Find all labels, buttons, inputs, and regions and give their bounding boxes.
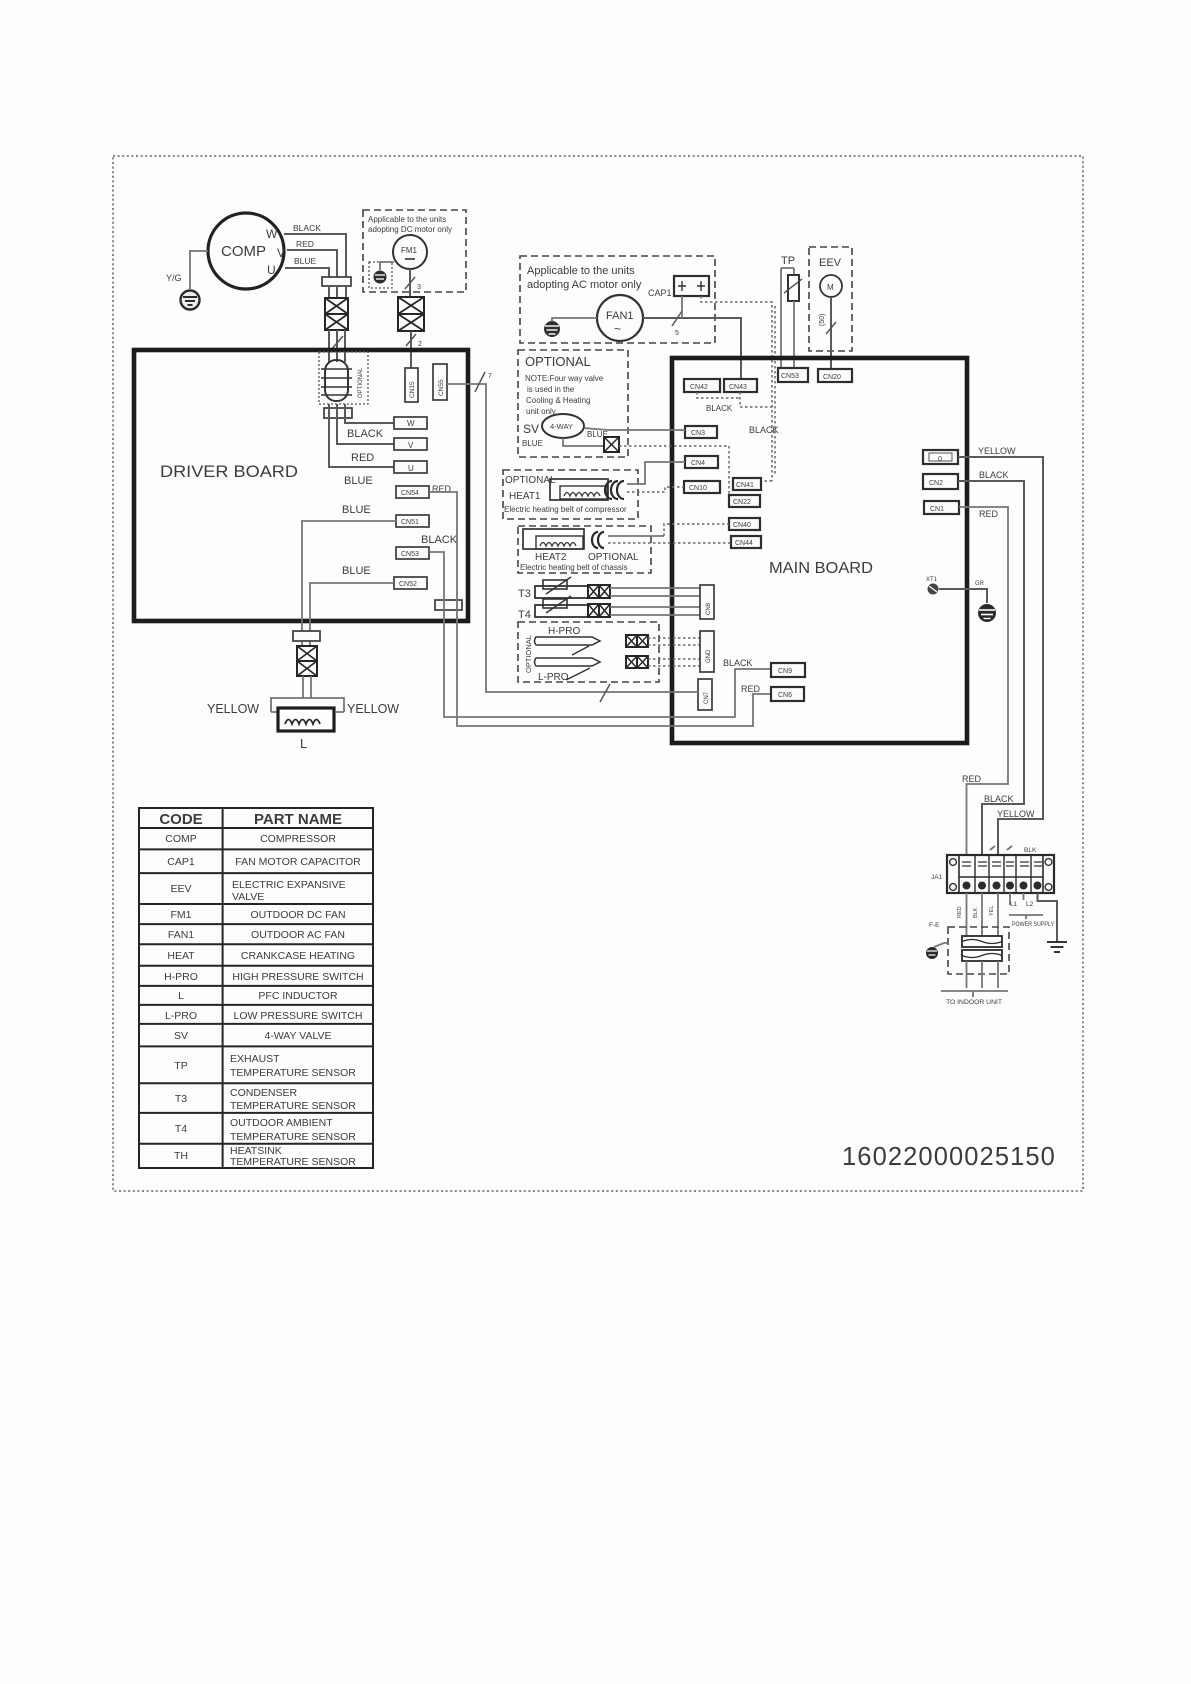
- svg-text:RED: RED: [979, 509, 999, 519]
- svg-text:CN41: CN41: [736, 482, 754, 489]
- connector CN10: [684, 481, 720, 493]
- svg-text:HEAT1: HEAT1: [509, 491, 541, 502]
- connector CN9: [771, 663, 805, 677]
- dotted joins CN42 CN43: [697, 392, 772, 407]
- svg-text:Cooling & Heating: Cooling & Heating: [526, 396, 590, 405]
- wire FM1 filter to CN15: [410, 331, 412, 369]
- dotted HEAT2 to CN44: [608, 542, 731, 543]
- svg-text:SV: SV: [523, 422, 539, 436]
- slash EEV: [826, 322, 836, 334]
- wires filter to indoor: [967, 961, 999, 988]
- svg-text:TP: TP: [174, 1060, 187, 1072]
- slash on CN7 wire: [600, 684, 610, 702]
- svg-text:2: 2: [418, 341, 422, 348]
- stubs L1 L2: [1010, 893, 1024, 905]
- svg-text:BLACK: BLACK: [293, 223, 321, 233]
- svg-text:CONDENSER: CONDENSER: [230, 1087, 298, 1099]
- slash 2: [406, 334, 416, 346]
- ferrite on red black pair: [435, 600, 462, 610]
- svg-text:Applicable to the units: Applicable to the units: [368, 215, 446, 224]
- connector CN52: [394, 577, 427, 589]
- svg-text:OPTIONAL: OPTIONAL: [588, 552, 639, 563]
- svg-text:OPTIONAL: OPTIONAL: [525, 354, 591, 369]
- connector CN7 vertical: [698, 679, 712, 710]
- svg-text:GND: GND: [706, 649, 712, 663]
- slash 5: [672, 311, 682, 326]
- slash 7: [475, 372, 485, 392]
- wire RED CN54 to CN6: [429, 492, 771, 726]
- wire red to V: [337, 404, 394, 444]
- connector CN42: [684, 379, 720, 392]
- connector CN43: [724, 379, 757, 392]
- filter block above inductor: [297, 646, 317, 676]
- wires T3 to board: [610, 588, 700, 596]
- svg-text:JA1: JA1: [931, 874, 943, 881]
- svg-text:BLACK: BLACK: [979, 470, 1009, 480]
- connector CN41: [733, 478, 761, 490]
- wire SV bottom: [563, 438, 604, 446]
- table part names column: [230, 833, 364, 1168]
- wire COMP U blue: [285, 268, 329, 277]
- ferrite below driver board: [293, 631, 320, 641]
- svg-text:4-WAY VALVE: 4-WAY VALVE: [264, 1030, 331, 1042]
- svg-text:BLUE: BLUE: [342, 565, 371, 577]
- sensor T3: [518, 577, 589, 600]
- filter windings: [962, 936, 1002, 961]
- power supply bracket: [1009, 915, 1043, 919]
- ground Y/G: [166, 273, 200, 310]
- terminal V: [394, 438, 427, 450]
- svg-text:V: V: [408, 441, 414, 450]
- svg-text:3: 3: [417, 284, 421, 291]
- svg-text:EEV: EEV: [170, 883, 191, 895]
- svg-text:TH: TH: [174, 1150, 188, 1162]
- svg-text:CN55: CN55: [438, 379, 445, 396]
- wires filter to transformer: [329, 330, 345, 362]
- connector CN1: [924, 501, 959, 514]
- wire HEAT1 to CN4: [627, 462, 685, 484]
- terminal U: [394, 461, 427, 473]
- capacitor CAP1: [648, 276, 709, 298]
- filter dashed box: [948, 927, 1009, 974]
- connector CN53 driver: [396, 547, 429, 559]
- connector HEAT1 plug: [605, 481, 624, 499]
- svg-text:COMPRESSOR: COMPRESSOR: [260, 833, 336, 845]
- svg-text:4-WAY: 4-WAY: [550, 422, 573, 431]
- switch L-PRO: [535, 658, 601, 680]
- svg-text:FAN1: FAN1: [168, 929, 194, 941]
- svg-text:CN10: CN10: [689, 485, 707, 492]
- filter block (hourglass) compressor: [325, 298, 348, 330]
- svg-text:CAP1: CAP1: [648, 288, 672, 298]
- wire black to W: [345, 404, 394, 423]
- wire YELLOW down right: [958, 457, 1043, 855]
- svg-text:Electric heating belt of chass: Electric heating belt of chassis: [520, 563, 628, 572]
- earth ground right: [1047, 942, 1067, 952]
- svg-text:BLUE: BLUE: [294, 256, 317, 266]
- ground FAN1: [544, 321, 560, 337]
- indoor bracket: [941, 991, 1008, 997]
- connector CN40: [729, 518, 760, 530]
- table codes column: [164, 833, 198, 1162]
- parts table: [139, 808, 373, 1168]
- svg-text:Y/G: Y/G: [166, 273, 182, 283]
- inductor feed bracket: [271, 698, 344, 712]
- svg-text:CN7: CN7: [704, 691, 710, 704]
- transformer capsule: [321, 360, 364, 401]
- connector D (yellow): [923, 450, 958, 464]
- svg-text:CN3: CN3: [691, 430, 705, 437]
- svg-text:L1: L1: [1010, 901, 1018, 908]
- svg-text:CN20: CN20: [823, 374, 841, 381]
- svg-text:T3: T3: [175, 1093, 187, 1105]
- svg-text:16022000025150: 16022000025150: [842, 1143, 1056, 1171]
- svg-text:L2: L2: [1026, 901, 1034, 908]
- svg-text:CN40: CN40: [733, 522, 751, 529]
- svg-text:COMP: COMP: [221, 243, 266, 260]
- svg-text:M: M: [827, 283, 834, 292]
- svg-text:unit only: unit only: [526, 407, 556, 416]
- svg-text:GR: GR: [975, 581, 985, 587]
- svg-text:EXHAUST: EXHAUST: [230, 1053, 280, 1065]
- page frame dashed border: [113, 156, 1083, 1191]
- svg-text:XT1: XT1: [926, 577, 938, 583]
- inductor L: [278, 708, 334, 731]
- dotted SV to CN22: [619, 446, 729, 495]
- svg-text:CODE: CODE: [159, 811, 202, 828]
- ground filter left: [926, 947, 938, 959]
- svg-text:U: U: [408, 464, 414, 473]
- svg-text:HEAT: HEAT: [167, 950, 195, 962]
- sensor TP: [781, 255, 802, 368]
- svg-text:BLK: BLK: [1024, 847, 1037, 854]
- svg-text:TEMPERATURE SENSOR: TEMPERATURE SENSOR: [230, 1100, 356, 1112]
- wire screw to ground: [939, 589, 987, 603]
- wire COMP V red: [287, 250, 337, 277]
- svg-text:COMP: COMP: [165, 833, 197, 845]
- connector CN51: [396, 515, 429, 527]
- switch H-PRO: [535, 637, 601, 655]
- svg-text:BLACK: BLACK: [421, 534, 458, 546]
- svg-text:CN53: CN53: [401, 551, 419, 558]
- HEAT1 dashed box: [503, 470, 638, 519]
- EEV dashed box: [809, 247, 852, 351]
- fan FAN1: [597, 295, 643, 341]
- svg-text:L-PRO: L-PRO: [165, 1010, 197, 1022]
- svg-text:CN22: CN22: [733, 499, 751, 506]
- ferrite SV: [604, 437, 619, 452]
- svg-text:5: 5: [675, 330, 679, 337]
- connector T3 plug: [588, 585, 610, 598]
- connector T4 plug: [588, 604, 610, 617]
- svg-text:RED: RED: [957, 906, 963, 918]
- filter block FM1: [398, 297, 424, 331]
- svg-text:PFC INDUCTOR: PFC INDUCTOR: [258, 990, 338, 1002]
- svg-text:HEAT2: HEAT2: [535, 552, 567, 563]
- svg-text:OPTIONAL: OPTIONAL: [524, 635, 533, 673]
- svg-text:BLACK: BLACK: [984, 794, 1014, 804]
- svg-text:ELECTRIC EXPANSIVE: ELECTRIC EXPANSIVE: [232, 879, 346, 891]
- svg-text:RED: RED: [296, 239, 314, 249]
- svg-text:CN42: CN42: [690, 384, 708, 391]
- svg-text:W: W: [266, 227, 278, 241]
- svg-text:TEMPERATURE SENSOR: TEMPERATURE SENSOR: [230, 1156, 356, 1168]
- svg-text:OPTIONAL: OPTIONAL: [358, 367, 364, 398]
- svg-text:is used in the: is used in the: [527, 385, 575, 394]
- FM1 ground dotted box: [369, 262, 392, 288]
- wire COMP W black: [284, 234, 346, 277]
- wire BLACK CN53 to CN9: [429, 552, 771, 717]
- ferrite below transformer: [324, 408, 352, 418]
- wire CN51 to left down: [302, 521, 396, 621]
- svg-text:NOTE:Four way valve: NOTE:Four way valve: [525, 374, 604, 383]
- optional transformer dotted box: [319, 352, 368, 404]
- svg-text:FAN1: FAN1: [606, 310, 634, 322]
- svg-text:W: W: [407, 419, 415, 428]
- svg-text:PART NAME: PART NAME: [254, 811, 342, 828]
- svg-text:TP: TP: [781, 255, 795, 267]
- svg-text:FM1: FM1: [171, 909, 192, 921]
- svg-text:V: V: [277, 246, 285, 260]
- svg-text:T3: T3: [518, 588, 531, 600]
- svg-text:OUTDOOR DC FAN: OUTDOOR DC FAN: [250, 909, 345, 921]
- dotted wires H-PRO: [648, 638, 700, 645]
- svg-text:H-PRO: H-PRO: [548, 626, 580, 637]
- svg-text:YELLOW: YELLOW: [997, 809, 1035, 819]
- wire ground to FAN1: [552, 318, 597, 321]
- wire CN52 to left down: [310, 583, 394, 621]
- fan motor FM1: [393, 235, 427, 269]
- svg-text:LOW PRESSURE SWITCH: LOW PRESSURE SWITCH: [234, 1010, 363, 1022]
- wires T4 to board: [610, 607, 700, 615]
- svg-text:~: ~: [614, 322, 621, 336]
- svg-text:CN44: CN44: [735, 540, 753, 547]
- wire SV to CN3: [584, 428, 685, 430]
- svg-text:Applicable to the units: Applicable to the units: [527, 265, 635, 277]
- svg-text:TEMPERATURE SENSOR: TEMPERATURE SENSOR: [230, 1131, 356, 1143]
- wire CAP1 right terminal dotted to CN41 bus: [701, 296, 775, 481]
- DC motor dashed box: [363, 210, 466, 292]
- connector CN44: [731, 536, 761, 548]
- svg-text:BLUE: BLUE: [344, 475, 373, 487]
- svg-text:7: 7: [488, 373, 492, 380]
- driver board: [134, 350, 468, 621]
- screw XT1: [926, 577, 939, 595]
- wires below terminal to filter: [967, 893, 999, 938]
- svg-text:BLUE: BLUE: [522, 439, 543, 448]
- svg-text:U: U: [267, 263, 276, 277]
- H-PRO L-PRO optional dashed box: [518, 622, 659, 682]
- connector CN8 vertical: [700, 585, 714, 619]
- wire EEV to CN20: [830, 297, 832, 369]
- compressor COMP: [208, 213, 285, 289]
- svg-text:BLACK: BLACK: [723, 658, 753, 668]
- svg-text:CN1: CN1: [930, 506, 944, 513]
- connector CN6: [771, 687, 804, 701]
- svg-text:BLUE: BLUE: [342, 504, 371, 516]
- connector CN4: [685, 456, 718, 468]
- svg-text:F-E: F-E: [929, 922, 940, 929]
- wire HEAT2 to CN40: [608, 535, 664, 537]
- svg-text:RED: RED: [741, 684, 761, 694]
- terminal block ticks: [990, 846, 1012, 850]
- svg-text:CN8: CN8: [706, 602, 712, 615]
- svg-text:CN51: CN51: [401, 519, 419, 526]
- connector H-PRO plug: [626, 635, 648, 647]
- svg-text:TEMPERATURE SENSOR: TEMPERATURE SENSOR: [230, 1067, 356, 1079]
- ground main board: [978, 604, 996, 622]
- svg-text:T4: T4: [518, 609, 531, 621]
- connector CN2: [923, 474, 958, 489]
- svg-text:TO INDOOR UNIT: TO INDOOR UNIT: [946, 999, 1002, 1006]
- svg-text:CRANKCASE HEATING: CRANKCASE HEATING: [241, 950, 355, 962]
- SV optional dashed box: [518, 350, 628, 457]
- svg-text:BLACK: BLACK: [749, 425, 779, 435]
- svg-text:FM1: FM1: [401, 246, 418, 255]
- svg-text:RED: RED: [351, 452, 374, 464]
- wires below driver board to filter: [302, 621, 310, 646]
- svg-text:EEV: EEV: [819, 257, 842, 269]
- wire CAP1 left terminal down: [681, 296, 683, 318]
- svg-text:YELLOW: YELLOW: [978, 446, 1016, 456]
- svg-text:CN53: CN53: [781, 373, 799, 380]
- svg-text:SV: SV: [174, 1030, 188, 1042]
- svg-text:DRIVER BOARD: DRIVER BOARD: [160, 462, 298, 481]
- svg-text:BLACK: BLACK: [706, 404, 733, 413]
- wires through ferrite: [329, 286, 346, 298]
- heater HEAT1: [550, 479, 608, 500]
- terminal block XT: [947, 855, 1054, 893]
- connector GND vertical: [700, 631, 714, 672]
- svg-text:CN6: CN6: [778, 692, 792, 699]
- svg-text:CAP1: CAP1: [167, 856, 195, 868]
- connector CN53 main: [778, 368, 808, 382]
- svg-text:L: L: [300, 736, 307, 751]
- heater HEAT2: [523, 529, 584, 549]
- svg-text:adopting AC motor only: adopting AC motor only: [527, 279, 642, 291]
- svg-text:OUTDOOR AC FAN: OUTDOOR AC FAN: [251, 929, 345, 941]
- svg-text:CN54: CN54: [401, 490, 419, 497]
- connector HEAT2 plug: [592, 532, 604, 548]
- ground FM1: [374, 271, 387, 284]
- svg-text:BLK: BLK: [973, 907, 979, 918]
- wire BLACK down right: [958, 481, 1024, 855]
- svg-text:T4: T4: [175, 1123, 187, 1135]
- wire to right ground: [1038, 893, 1058, 942]
- wire RED down right: [959, 507, 1008, 855]
- svg-text:HIGH PRESSURE SWITCH: HIGH PRESSURE SWITCH: [232, 971, 363, 983]
- HEAT2 dashed box: [518, 526, 651, 573]
- wire COMP to ground: [190, 251, 208, 289]
- svg-text:CN43: CN43: [729, 384, 747, 391]
- svg-text:MAIN BOARD: MAIN BOARD: [769, 560, 873, 577]
- svg-text:YELLOW: YELLOW: [207, 702, 259, 716]
- sensor T4: [518, 596, 589, 621]
- svg-text:0: 0: [938, 456, 942, 463]
- ferrite bead on compressor wires: [322, 277, 351, 286]
- wire blue to U: [329, 404, 394, 467]
- connector CN15: [405, 368, 418, 402]
- svg-text:H-PRO: H-PRO: [164, 971, 198, 983]
- wires filter to inductor bracket: [303, 676, 311, 698]
- connector CN3: [685, 426, 717, 438]
- svg-text:YEL: YEL: [989, 906, 995, 916]
- svg-text:FAN MOTOR CAPACITOR: FAN MOTOR CAPACITOR: [235, 856, 361, 868]
- svg-text:CN52: CN52: [399, 581, 417, 588]
- connector CN22: [729, 495, 760, 507]
- wire FM1 ground: [380, 262, 394, 270]
- svg-text:OPTIONAL: OPTIONAL: [505, 475, 556, 486]
- wire-count slash: [331, 336, 343, 350]
- svg-text:RED: RED: [962, 774, 982, 784]
- main board: [672, 358, 967, 743]
- dotted HEAT1 to CN10: [627, 487, 684, 492]
- EEV motor: [820, 275, 842, 297]
- svg-text:CN2: CN2: [929, 480, 943, 487]
- svg-text:CN4: CN4: [691, 460, 705, 467]
- wire CN55 to CN7: [447, 384, 698, 692]
- svg-text:BLACK: BLACK: [347, 428, 384, 440]
- slash 3: [405, 277, 415, 289]
- table header: [159, 811, 342, 828]
- svg-text:(50): (50): [819, 314, 826, 326]
- svg-text:CN9: CN9: [778, 668, 792, 675]
- svg-text:Electric heating belt of compr: Electric heating belt of compressor: [504, 505, 627, 514]
- wire FAN1 to CN43: [643, 318, 741, 379]
- connector L-PRO plug: [626, 656, 648, 668]
- connector CN20: [818, 369, 852, 382]
- svg-text:YELLOW: YELLOW: [347, 702, 399, 716]
- svg-text:L: L: [178, 990, 184, 1002]
- svg-text:adopting DC motor only: adopting DC motor only: [368, 225, 452, 234]
- terminal W: [394, 417, 427, 429]
- svg-text:CN15: CN15: [409, 381, 416, 398]
- svg-text:POWER SUPPLY: POWER SUPPLY: [1012, 921, 1055, 928]
- connector CN55: [433, 364, 447, 400]
- AC motor dashed box: [520, 256, 715, 343]
- svg-text:OUTDOOR AMBIENT: OUTDOOR AMBIENT: [230, 1117, 333, 1129]
- svg-text:L-PRO: L-PRO: [538, 672, 569, 683]
- wire ground to filter: [934, 943, 948, 947]
- svg-text:VALVE: VALVE: [232, 891, 264, 903]
- wire FM1 down: [409, 269, 411, 297]
- connector CN54: [396, 486, 429, 498]
- dotted wires L-PRO: [648, 659, 700, 666]
